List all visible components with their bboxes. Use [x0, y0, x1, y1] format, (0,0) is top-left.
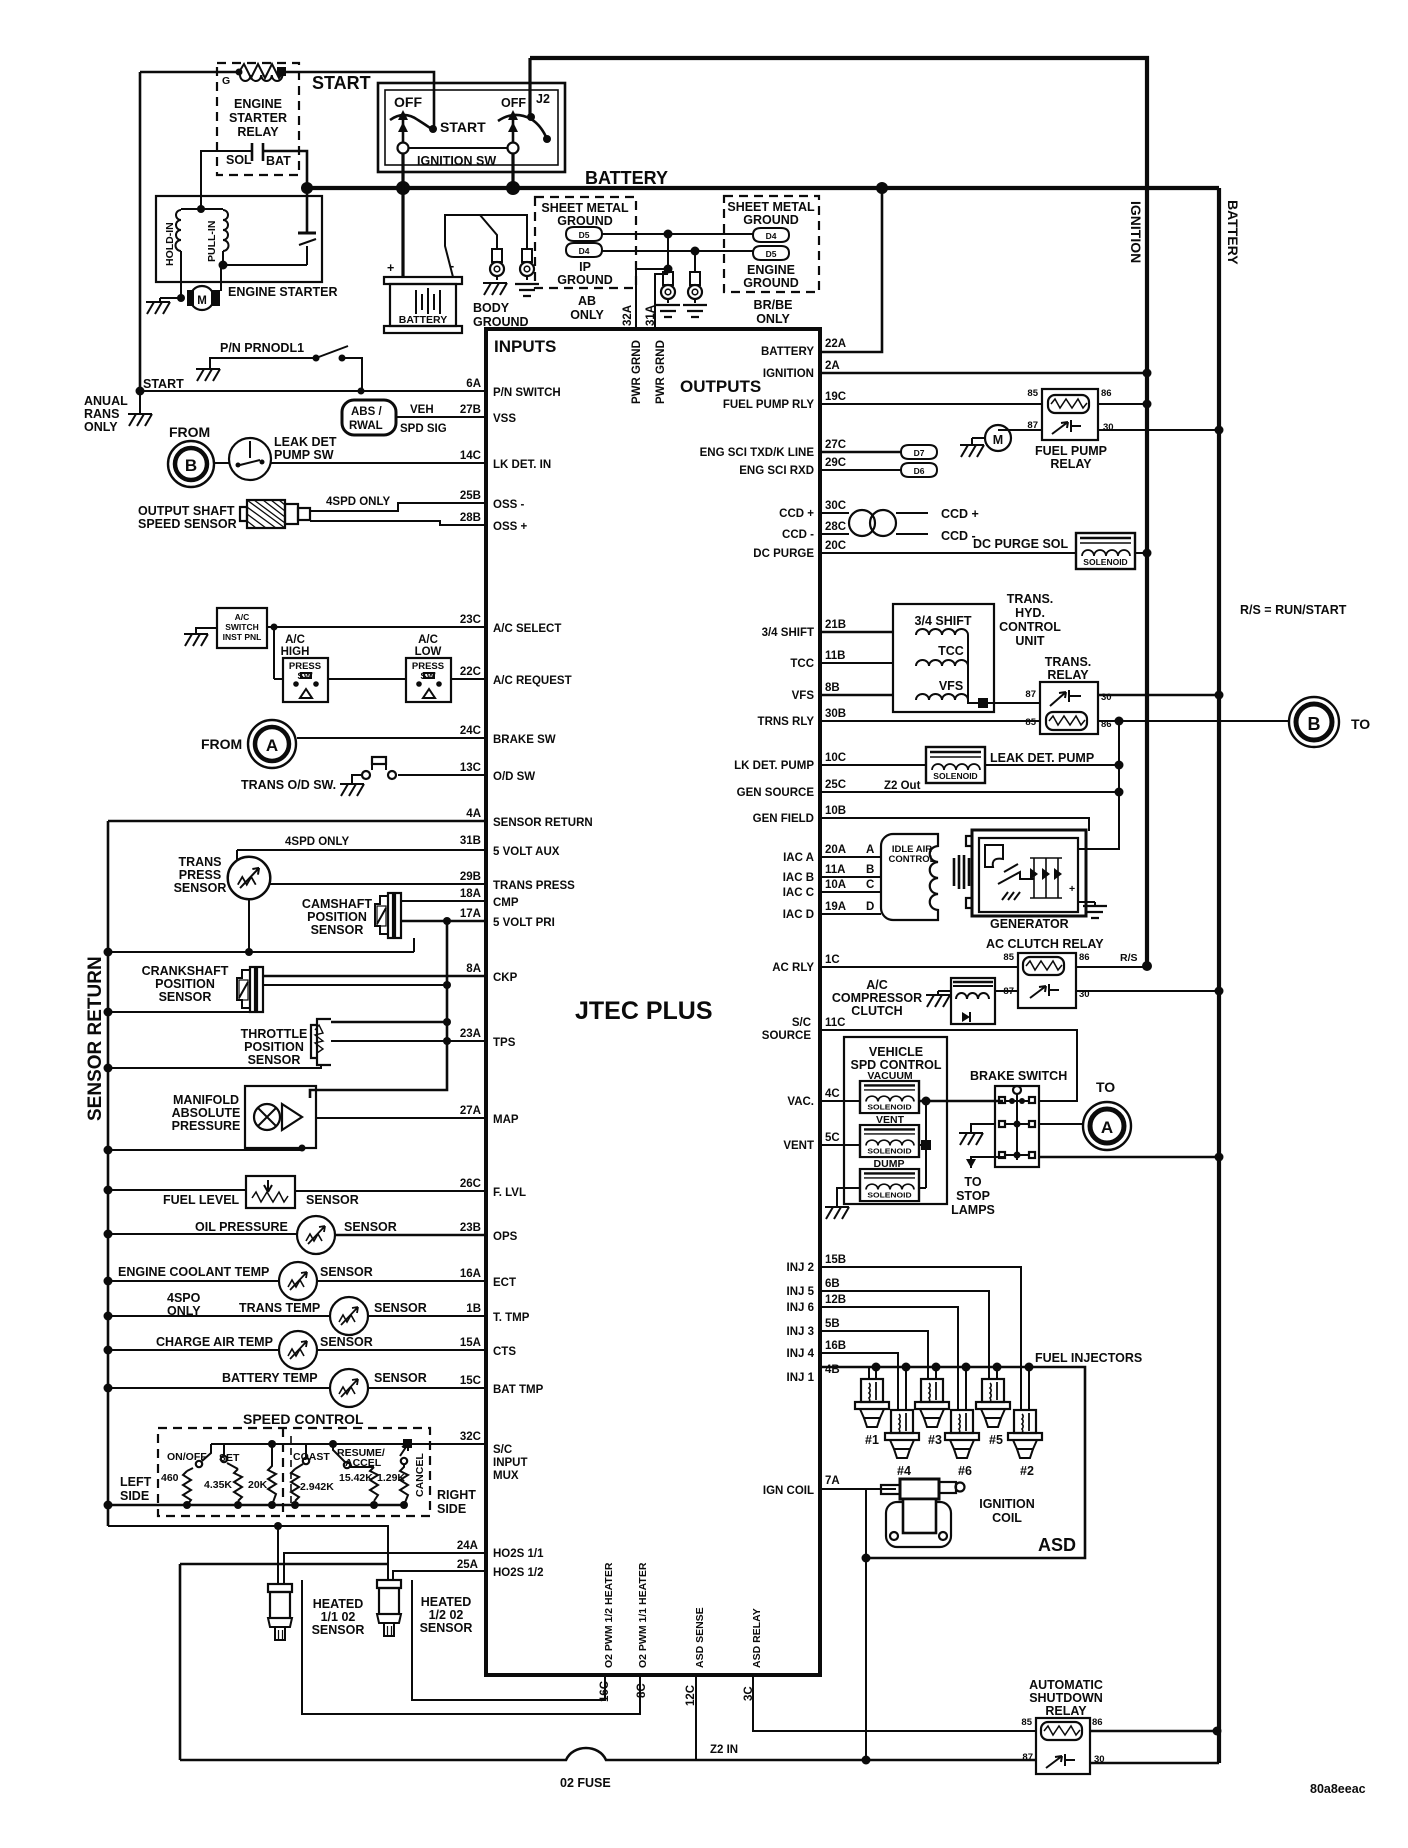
svg-text:#5: #5: [989, 1433, 1003, 1447]
wire 28B OSS + input: [310, 512, 527, 533]
switch set + resistor 4.35K: [204, 1444, 242, 1501]
ignition coil: [881, 1479, 1035, 1547]
svg-text:A/C SELECT: A/C SELECT: [493, 623, 561, 635]
injector supply drops: [869, 1363, 1034, 1411]
svg-text:O2 PWM 1/1 HEATER: O2 PWM 1/1 HEATER: [637, 1562, 649, 1668]
svg-text:14C: 14C: [460, 450, 481, 462]
svg-text:ENG SCI RXD: ENG SCI RXD: [739, 465, 814, 477]
svg-text:4.35K: 4.35K: [204, 1479, 232, 1491]
svg-text:LK DET. IN: LK DET. IN: [493, 459, 551, 471]
switch A/C high pressure: [281, 634, 328, 702]
wire CKP 5V branch: [263, 984, 447, 986]
svg-text:SWITCH: SWITCH: [225, 622, 259, 632]
injector #3: [915, 1379, 949, 1447]
pin 16C O2 PWM 1/2 HEATER label: [599, 1562, 615, 1702]
svg-text:ENGINE: ENGINE: [747, 263, 795, 277]
svg-text:26C: 26C: [460, 1178, 481, 1190]
svg-text:10A: 10A: [825, 879, 846, 891]
svg-text:M: M: [993, 433, 1003, 447]
svg-text:BATTERY: BATTERY: [585, 168, 668, 188]
svg-text:HEATED: HEATED: [313, 1597, 363, 1611]
wire ignition coil feed down to Z2: [862, 1489, 871, 1765]
switch A/C low pressure: [406, 634, 451, 702]
ground manual trans only: [84, 391, 152, 434]
svg-text:CONTROL: CONTROL: [999, 620, 1061, 634]
svg-text:ABSOLUTE: ABSOLUTE: [172, 1106, 241, 1120]
svg-text:MUX: MUX: [493, 1470, 519, 1482]
engine starter assembly: [156, 188, 322, 302]
svg-text:HIGH: HIGH: [281, 646, 310, 658]
wire 30B TRNS RLY output: [758, 708, 1040, 728]
svg-text:IGN COIL: IGN COIL: [763, 1485, 814, 1497]
wire 30C CCD + output: [779, 500, 849, 520]
svg-text:1/2 02: 1/2 02: [429, 1608, 464, 1622]
svg-text:A/C: A/C: [866, 978, 888, 992]
relay K2 TRANS RELAY: [1025, 655, 1111, 734]
svg-text:GEN SOURCE: GEN SOURCE: [737, 787, 815, 799]
svg-text:FUEL PUMP: FUEL PUMP: [1035, 444, 1107, 458]
resistor 20K: [248, 1444, 276, 1505]
svg-text:GROUND: GROUND: [743, 276, 799, 290]
svg-text:INPUTS: INPUTS: [494, 337, 556, 356]
svg-text:PWR GRND: PWR GRND: [655, 340, 667, 404]
injector #2: [1008, 1410, 1042, 1478]
svg-text:19C: 19C: [825, 391, 846, 403]
wire 29B TRANS PRESS input: [270, 871, 575, 892]
svg-text:SPD SIG: SPD SIG: [400, 423, 447, 435]
svg-text:POSITION: POSITION: [155, 977, 215, 991]
wire dump sol to ground: [825, 1188, 926, 1219]
svg-text:INPUT: INPUT: [493, 1457, 528, 1469]
svg-text:STOP: STOP: [956, 1189, 990, 1203]
svg-text:POSITION: POSITION: [307, 910, 367, 924]
wire BATTERY bus: [301, 168, 1219, 195]
svg-text:8B: 8B: [825, 682, 840, 694]
svg-text:THROTTLE: THROTTLE: [241, 1027, 308, 1041]
motor M fuel pump: [960, 425, 1042, 457]
svg-text:3/4 SHIFT: 3/4 SHIFT: [915, 614, 972, 628]
svg-text:IAC A: IAC A: [783, 852, 814, 864]
svg-text:#4: #4: [897, 1464, 911, 1478]
wire battery negative to body ground: [445, 215, 527, 277]
svg-text:1B: 1B: [466, 1303, 481, 1315]
svg-text:SOURCE: SOURCE: [762, 1030, 812, 1042]
pin 12C ASD SENSE label: [685, 1607, 706, 1706]
svg-text:INJ 1: INJ 1: [787, 1372, 815, 1384]
svg-text:O/D SW: O/D SW: [493, 771, 535, 783]
svg-text:24C: 24C: [460, 725, 481, 737]
label START net: [143, 377, 184, 391]
svg-text:START: START: [312, 73, 371, 93]
ignition switch assembly: [378, 83, 565, 172]
svg-text:12B: 12B: [825, 1294, 846, 1306]
svg-text:GROUND: GROUND: [473, 315, 529, 329]
wire sensor return to O2 signal line: [108, 1522, 388, 1584]
wire 16A ECT input: [317, 1268, 516, 1289]
wire fuel pump relay 86 to ignition bus: [1098, 400, 1152, 409]
wire 14C LK DET. IN input: [271, 450, 551, 471]
wire 5V distribution vertical: [310, 921, 451, 1098]
svg-text:SENSOR: SENSOR: [374, 1371, 427, 1385]
svg-text:4SPO: 4SPO: [167, 1291, 201, 1305]
wire 26C F. LVL input: [295, 1178, 526, 1199]
wire ASD relay 30 to battery bus bottom: [1090, 1762, 1219, 1765]
sensor battery temp: [108, 1369, 427, 1407]
svg-text:25B: 25B: [460, 490, 481, 502]
svg-text:A/C REQUEST: A/C REQUEST: [493, 675, 572, 687]
wire 12C ASD sense drop: [696, 1675, 738, 1760]
svg-text:+: +: [387, 261, 394, 275]
svg-text:28B: 28B: [460, 512, 481, 524]
svg-text:#3: #3: [928, 1433, 942, 1447]
svg-text:20A: 20A: [825, 844, 846, 856]
brake switch: [970, 1069, 1067, 1167]
pin 31A PWR GRND label: [655, 340, 667, 404]
svg-text:RWAL: RWAL: [349, 420, 383, 432]
wire 15C BAT TMP input: [368, 1375, 544, 1396]
svg-text:86: 86: [1101, 388, 1112, 399]
svg-text:86: 86: [1092, 1717, 1103, 1728]
svg-text:A/C: A/C: [235, 612, 250, 622]
wire relay SOL to starter: [201, 151, 252, 209]
wire 24A HO2S 1/1 input: [284, 1540, 544, 1584]
svg-text:15C: 15C: [460, 1375, 481, 1387]
relay K4 AUTOMATIC SHUTDOWN RELAY: [1021, 1678, 1104, 1774]
svg-text:OPS: OPS: [493, 1231, 518, 1243]
wire 5B INJ 3 output: [787, 1318, 929, 1379]
svg-text:Z2 Out: Z2 Out: [884, 780, 921, 792]
svg-text:BR/BE: BR/BE: [754, 298, 793, 312]
wire 31B 5 VOLT AUX input: [237, 835, 560, 860]
svg-text:VEHICLE: VEHICLE: [869, 1045, 923, 1059]
svg-text:D: D: [866, 901, 874, 913]
connector D6: [901, 463, 937, 477]
svg-text:DC PURGE: DC PURGE: [753, 548, 814, 560]
svg-text:SENSOR: SENSOR: [311, 923, 364, 937]
wire 15B INJ 2 output: [787, 1254, 1022, 1410]
module ABS/RWAL: [342, 400, 447, 435]
injector #5: [976, 1379, 1010, 1447]
svg-text:GROUND: GROUND: [557, 214, 613, 228]
wire 12B INJ 6 output: [787, 1294, 959, 1410]
label START header: [312, 73, 371, 93]
wire 20A IAC A output: [783, 844, 881, 864]
svg-text:11A: 11A: [825, 864, 845, 876]
wire 11A IAC B output: [783, 864, 881, 884]
svg-text:ASD SENSE: ASD SENSE: [694, 1607, 706, 1668]
svg-text:PULL-IN: PULL-IN: [206, 221, 218, 262]
svg-text:BRAKE SW: BRAKE SW: [493, 734, 556, 746]
svg-text:SENSOR RETURN: SENSOR RETURN: [493, 817, 593, 829]
svg-text:TO: TO: [1096, 1079, 1115, 1095]
svg-text:29C: 29C: [825, 457, 846, 469]
svg-text:INJ 3: INJ 3: [787, 1326, 815, 1338]
svg-text:TPS: TPS: [493, 1037, 516, 1049]
wire 29C ENG SCI RXD output: [739, 457, 901, 477]
svg-text:24A: 24A: [457, 1540, 478, 1552]
svg-text:C: C: [866, 879, 874, 891]
svg-text:BATTERY: BATTERY: [399, 314, 447, 326]
svg-text:IGNITION: IGNITION: [763, 368, 814, 380]
svg-text:ENGINE COOLANT TEMP: ENGINE COOLANT TEMP: [118, 1265, 269, 1279]
relay engine starter relay: [217, 63, 299, 175]
wire trans/cam sensor return: [108, 938, 414, 952]
wire O2 fuse line / Z2: [180, 1748, 1036, 1790]
wire 18A CMP input: [401, 888, 519, 909]
wire 11B TCC output: [790, 650, 893, 670]
svg-text:ASD: ASD: [1038, 1535, 1076, 1555]
svg-text:TRANS O/D SW.: TRANS O/D SW.: [241, 778, 336, 792]
svg-text:AC RLY: AC RLY: [772, 962, 814, 974]
svg-text:25C: 25C: [825, 779, 846, 791]
svg-text:18A: 18A: [460, 888, 481, 900]
relay K1 FUEL PUMP RELAY: [1027, 388, 1113, 471]
svg-text:COAST: COAST: [293, 1451, 330, 1463]
switch leak det pump sw: [214, 435, 337, 480]
svg-text:P/N PRNODL1: P/N PRNODL1: [220, 341, 304, 355]
battery: [384, 277, 462, 333]
AC compressor clutch coil: [832, 978, 1018, 1024]
svg-text:ABS /: ABS /: [351, 406, 382, 418]
svg-text:LEAK DET: LEAK DET: [274, 435, 337, 449]
svg-text:FUEL LEVEL: FUEL LEVEL: [163, 1193, 240, 1207]
svg-text:87: 87: [1025, 689, 1036, 700]
svg-text:VAC.: VAC.: [787, 1096, 814, 1108]
wire 27B VSS input: [397, 404, 516, 425]
svg-text:15.42K: 15.42K: [339, 1472, 373, 1484]
solenoid vacuum: [860, 1070, 919, 1113]
svg-text:4SPD ONLY: 4SPD ONLY: [326, 496, 390, 508]
speed control switch assembly: [108, 1411, 476, 1516]
svg-text:HO2S 1/1: HO2S 1/1: [493, 1548, 544, 1560]
svg-text:RIGHT: RIGHT: [437, 1488, 476, 1502]
svg-text:RANS: RANS: [84, 407, 119, 421]
wire ignition switch feeds to battery bus: [403, 58, 530, 188]
wire 27C ENG SCI TXD/K LINE output: [700, 439, 901, 459]
svg-text:OIL PRESSURE: OIL PRESSURE: [195, 1220, 288, 1234]
svg-text:IAC B: IAC B: [783, 872, 814, 884]
svg-text:RELAY: RELAY: [1050, 457, 1092, 471]
wire 2A IGNITION output: [763, 360, 1152, 380]
wire 22A BATTERY output: [761, 188, 882, 358]
svg-text:CCD +: CCD +: [779, 508, 814, 520]
wire 1C AC RLY output: [772, 954, 1018, 974]
svg-text:A: A: [866, 844, 874, 856]
wire AC relay 86 to ignition R/S: [1076, 952, 1152, 971]
svg-text:TCC: TCC: [938, 644, 964, 658]
svg-text:FROM: FROM: [201, 736, 242, 752]
wire 19C FUEL PUMP RLY output: [723, 391, 1042, 411]
svg-text:HO2S 1/2: HO2S 1/2: [493, 1567, 544, 1579]
svg-text:11B: 11B: [825, 650, 845, 662]
relay K3 AC CLUTCH RELAY: [986, 937, 1104, 1008]
svg-text:IAC D: IAC D: [783, 909, 814, 921]
injector #6: [945, 1410, 979, 1478]
svg-text:SENSOR: SENSOR: [306, 1193, 359, 1207]
svg-text:IGNITION: IGNITION: [1128, 201, 1144, 263]
svg-text:LK DET. PUMP: LK DET. PUMP: [734, 760, 814, 772]
body ground lug left: [483, 249, 507, 295]
trans hyd control unit box: [893, 592, 1061, 712]
svg-text:ENGINE STARTER: ENGINE STARTER: [228, 285, 338, 299]
sheet metal ground box right: [724, 196, 819, 326]
svg-text:BAT: BAT: [266, 154, 291, 168]
wire 8B VFS output: [792, 682, 893, 702]
svg-text:INST PNL: INST PNL: [223, 632, 262, 642]
svg-text:MANIFOLD: MANIFOLD: [173, 1093, 239, 1107]
wire 10A IAC C output: [783, 879, 881, 899]
switch cancel + resistor 1.29K: [377, 1444, 426, 1505]
svg-text:5 VOLT PRI: 5 VOLT PRI: [493, 917, 555, 929]
wire vacuum sol to brake switch: [919, 1097, 1003, 1106]
svg-text:5C: 5C: [825, 1132, 840, 1144]
wire battery positive feed: [387, 188, 454, 277]
svg-text:460: 460: [161, 1472, 179, 1484]
svg-text:17A: 17A: [460, 908, 481, 920]
svg-text:GEN FIELD: GEN FIELD: [753, 813, 814, 825]
wire 11C S/C SOURCE output: [762, 1017, 1077, 1101]
svg-text:VEH: VEH: [410, 404, 434, 416]
switch on/off + resistor 460: [161, 1444, 211, 1505]
svg-text:STARTER: STARTER: [229, 111, 287, 125]
svg-text:RELAY: RELAY: [1047, 668, 1089, 682]
svg-text:INJ 5: INJ 5: [787, 1286, 815, 1298]
svg-text:10C: 10C: [825, 752, 846, 764]
svg-text:23C: 23C: [460, 614, 481, 626]
svg-text:5 VOLT AUX: 5 VOLT AUX: [493, 846, 560, 858]
wire 23A TPS input: [331, 1028, 516, 1049]
motor M engine starter: [146, 285, 338, 314]
svg-text:TO: TO: [964, 1175, 981, 1189]
node B FROM: [168, 424, 214, 487]
svg-text:G: G: [222, 75, 230, 87]
svg-text:ONLY: ONLY: [84, 420, 118, 434]
svg-text:SIDE: SIDE: [120, 1489, 149, 1503]
pin 32A PWR GRND label: [631, 340, 643, 404]
svg-text:27A: 27A: [460, 1105, 481, 1117]
svg-text:GROUND: GROUND: [743, 213, 799, 227]
svg-text:TRANS: TRANS: [178, 855, 221, 869]
wire trans relay 30 to battery bus: [1098, 691, 1224, 700]
svg-text:OFF: OFF: [394, 94, 422, 110]
svg-text:30: 30: [1101, 692, 1112, 703]
wire start feed top-left: [140, 72, 434, 391]
svg-text:15A: 15A: [460, 1337, 481, 1349]
svg-text:AUTOMATIC: AUTOMATIC: [1029, 1678, 1103, 1692]
svg-text:CANCEL: CANCEL: [414, 1453, 426, 1497]
svg-text:28C: 28C: [825, 521, 846, 533]
svg-text:TRNS RLY: TRNS RLY: [758, 716, 815, 728]
svg-text:JTEC PLUS: JTEC PLUS: [575, 997, 713, 1025]
wire 4A SENSOR RETURN input: [108, 808, 593, 829]
svg-text:A: A: [1101, 1118, 1113, 1137]
svg-text:MAP: MAP: [493, 1114, 519, 1126]
wire IGNITION vertical bus: [530, 58, 1147, 966]
svg-text:3/4 SHIFT: 3/4 SHIFT: [762, 627, 814, 639]
sensor throttle position: [108, 1019, 331, 1068]
wire fuel pump relay 30 to battery bus: [1098, 426, 1224, 435]
sheet metal ground box left: [535, 197, 636, 322]
svg-text:HOLD-IN: HOLD-IN: [164, 222, 176, 266]
svg-text:30C: 30C: [825, 500, 846, 512]
svg-text:INJ 4: INJ 4: [787, 1348, 815, 1360]
svg-text:SOL: SOL: [226, 153, 252, 167]
wire to stop lamps: [951, 1157, 1005, 1217]
svg-text:16B: 16B: [825, 1340, 846, 1352]
svg-text:IAC C: IAC C: [783, 887, 814, 899]
svg-text:31A: 31A: [645, 305, 657, 326]
wire 16C O2 heater 1/2 return: [412, 1580, 605, 1700]
svg-text:13C: 13C: [460, 762, 481, 774]
svg-text:D5: D5: [579, 230, 590, 240]
vehicle speed control servo box: [844, 1037, 947, 1204]
svg-text:SENSOR: SENSOR: [174, 881, 227, 895]
svg-text:START: START: [440, 119, 486, 135]
svg-text:RELAY: RELAY: [1045, 1704, 1087, 1718]
wire 15A CTS input: [317, 1337, 516, 1358]
svg-text:TRANS PRESS: TRANS PRESS: [493, 880, 575, 892]
wire 10B GEN FIELD output: [753, 805, 1089, 831]
wire BATTERY vertical bus: [1219, 188, 1241, 1763]
svg-text:VFS: VFS: [939, 679, 963, 693]
wire ASD relay 86 to battery bus: [1090, 1727, 1222, 1736]
svg-text:20C: 20C: [825, 540, 846, 552]
svg-text:85: 85: [1021, 1717, 1032, 1728]
wire 6B INJ 5 output: [787, 1278, 990, 1379]
svg-text:OSS -: OSS -: [493, 499, 524, 511]
svg-text:FROM: FROM: [169, 424, 210, 440]
svg-text:SENSOR: SENSOR: [420, 1621, 473, 1635]
generator: [966, 830, 1107, 931]
switch P/N PRNODL1: [196, 341, 362, 391]
svg-text:CRANKSHAFT: CRANKSHAFT: [142, 964, 229, 978]
svg-text:START: START: [143, 377, 184, 391]
svg-text:TRANS.: TRANS.: [1045, 655, 1092, 669]
svg-text:INJ 6: INJ 6: [787, 1302, 815, 1314]
svg-text:25A: 25A: [457, 1559, 478, 1571]
wire 8A CKP input: [263, 963, 518, 984]
wire D4 to D5 crossover: [602, 247, 753, 256]
svg-text:30: 30: [1103, 422, 1114, 433]
svg-text:SIDE: SIDE: [437, 1502, 466, 1516]
wire brake switch bottom to battery bus: [1039, 1153, 1224, 1162]
connector fins IAC to generator: [954, 855, 969, 889]
svg-text:22A: 22A: [825, 338, 846, 350]
sensor engine coolant temp: [108, 1262, 373, 1318]
sensor output shaft speed: [138, 500, 310, 531]
svg-text:D4: D4: [579, 246, 590, 256]
wire brake switch mid to ground: [959, 1124, 995, 1145]
svg-text:30B: 30B: [825, 708, 846, 720]
svg-text:85: 85: [1025, 717, 1036, 728]
solenoid DC purge: [1076, 533, 1152, 569]
sensor fuel level: [108, 1176, 359, 1208]
svg-text:LOW: LOW: [415, 646, 442, 658]
wire D5 to D4 crossover: [602, 230, 753, 239]
svg-text:O2 PWM 1/2 HEATER: O2 PWM 1/2 HEATER: [603, 1562, 615, 1668]
wire 7A IGN COIL output: [763, 1475, 896, 1497]
svg-text:SPEED CONTROL: SPEED CONTROL: [243, 1411, 364, 1427]
wire relay BAT to battery bus: [263, 151, 307, 188]
wire trans relay 85 drop to leak det pump net: [1078, 721, 1124, 849]
svg-text:OUTPUTS: OUTPUTS: [680, 377, 761, 396]
svg-text:#6: #6: [958, 1464, 972, 1478]
wire 23B OPS input: [335, 1222, 518, 1243]
solenoid vent: [860, 1114, 919, 1157]
svg-text:TRANS.: TRANS.: [1007, 592, 1054, 606]
svg-text:ONLY: ONLY: [756, 312, 790, 326]
injector #4: [885, 1410, 919, 1478]
